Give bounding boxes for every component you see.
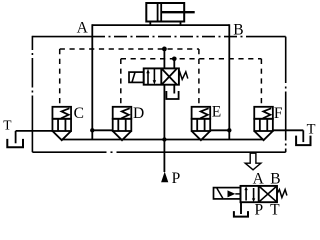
svg-text:A: A	[253, 170, 265, 187]
svg-text:A: A	[77, 20, 89, 37]
svg-text:P: P	[255, 202, 264, 219]
svg-text:B: B	[270, 170, 280, 187]
svg-text:T: T	[3, 118, 12, 133]
svg-text:C: C	[74, 105, 84, 122]
svg-text:T: T	[307, 122, 316, 138]
svg-text:T: T	[270, 202, 280, 219]
svg-text:B: B	[233, 22, 243, 39]
svg-text:P: P	[172, 170, 181, 187]
svg-text:D: D	[133, 105, 144, 122]
svg-text:E: E	[212, 104, 221, 121]
svg-text:F: F	[274, 105, 283, 122]
